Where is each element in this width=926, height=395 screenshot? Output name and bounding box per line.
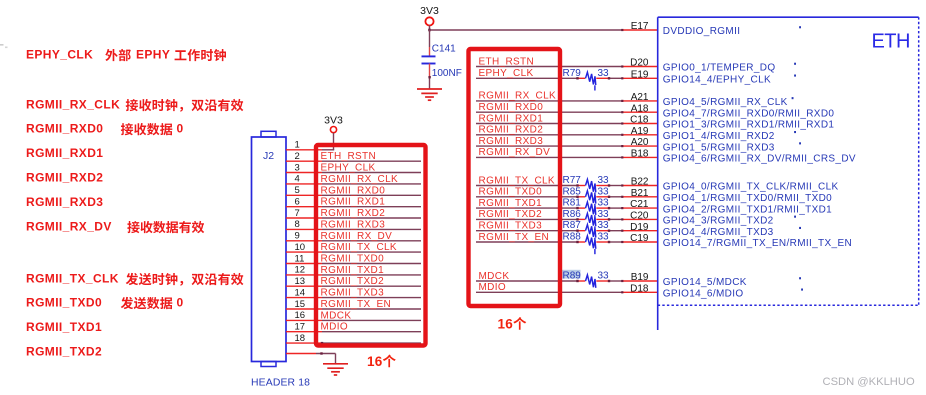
svg-text:16: 16 (295, 310, 306, 321)
pin 8 of J2 net RGMII_RXD3 (286, 219, 421, 230)
annotation RGMII_TXD0 note (26, 296, 184, 310)
svg-text:D18: D18 (630, 283, 649, 294)
svg-text:GPIO4_5/RGMII_RX_CLK: GPIO4_5/RGMII_RX_CLK (663, 97, 788, 108)
svg-text:ETH: ETH (872, 30, 910, 52)
resistor R89 33 (561, 270, 610, 288)
svg-text:EPHY_CLK: EPHY_CLK (479, 68, 534, 79)
svg-text:EPHY_CLK: EPHY_CLK (26, 48, 93, 62)
pin 15 of J2 net RGMII_TX_EN (286, 299, 421, 310)
pin 5 of J2 net RGMII_RXD0 (286, 185, 421, 196)
svg-text:RGMII_RX_CLK: RGMII_RX_CLK (479, 91, 557, 102)
svg-text:33: 33 (598, 198, 610, 209)
svg-text:7: 7 (295, 208, 300, 219)
wire 3V3 to capacitor (429, 30, 431, 56)
svg-text:GPIO4_1/RGMII_TXD0/RMII_TXD0: GPIO4_1/RGMII_TXD0/RMII_TXD0 (663, 193, 832, 204)
pin D20 of U-ETH (621, 58, 657, 69)
svg-text:13: 13 (295, 276, 306, 287)
svg-text:RGMII_RXD1: RGMII_RXD1 (26, 146, 103, 160)
pin label GPIO14_7 (663, 238, 852, 249)
annotation RGMII_RXD0 note (26, 122, 184, 136)
svg-text:A21: A21 (631, 92, 649, 103)
svg-text:RGMII_RXD3: RGMII_RXD3 (321, 219, 386, 230)
pin label GPIO4_2 (663, 204, 832, 215)
svg-text:3V3: 3V3 (324, 115, 343, 127)
svg-text:10: 10 (295, 242, 306, 253)
svg-text:RGMII_RXD3: RGMII_RXD3 (26, 195, 103, 209)
svg-text:DVDDIO_RGMII: DVDDIO_RGMII (663, 26, 741, 37)
svg-text:GPIO14_5/MDCK: GPIO14_5/MDCK (663, 277, 747, 288)
pin 9 of J2 net RGMII_RX_DV (286, 231, 421, 242)
svg-text:RGMII_TX_EN: RGMII_TX_EN (321, 299, 392, 310)
pin B22 of U-ETH (621, 177, 657, 188)
annotation RGMII_RX_DV note (26, 220, 204, 234)
svg-text:RGMII_TXD0: RGMII_TXD0 (26, 296, 102, 310)
resistor R86 33 (563, 209, 611, 232)
annotation RGMII_RXD3 note (26, 195, 103, 209)
pin 12 of J2 net RGMII_TXD1 (286, 265, 421, 276)
svg-text:RGMII_RXD2: RGMII_RXD2 (479, 125, 544, 136)
pin 16 of J2 net MDCK (286, 310, 421, 321)
svg-text:11: 11 (295, 253, 305, 264)
svg-text:RGMII_TX_CLK: RGMII_TX_CLK (321, 242, 397, 253)
svg-text:E19: E19 (631, 69, 649, 80)
svg-text:HEADER 18: HEADER 18 (251, 378, 310, 389)
svg-text:0: 0 (177, 296, 184, 310)
net RGMII_TX_EN (476, 232, 622, 243)
label 16 count (ETH) (498, 317, 527, 332)
ground (J2 pin18) (323, 364, 348, 375)
net RGMII_TXD2 (476, 209, 622, 220)
svg-text:1: 1 (295, 140, 300, 151)
pin label GPIO4_3 (663, 216, 774, 227)
svg-text:RGMII_RX_CLK: RGMII_RX_CLK (26, 98, 120, 112)
svg-text:RGMII_TXD2: RGMII_TXD2 (479, 209, 543, 220)
svg-text:GPIO4_2/RGMII_TXD1/RMII_TXD1: GPIO4_2/RGMII_TXD1/RMII_TXD1 (663, 204, 832, 215)
pin 4 of J2 net RGMII_RX_CLK (286, 174, 421, 185)
wire to ground (J2) (286, 352, 336, 364)
pin label GPIO1_4 (663, 131, 775, 142)
pin label GPIO4_5 (663, 97, 788, 108)
svg-text:GPIO4_7/RGMII_RXD0/RMII_RXD0: GPIO4_7/RGMII_RXD0/RMII_RXD0 (663, 108, 835, 119)
highlight box (J2 nets) (316, 145, 426, 346)
label HEADER 18 (251, 378, 310, 389)
pin C18 of U-ETH (621, 115, 657, 126)
pin label GPIO1_5 (663, 142, 775, 153)
pin label GPIO4_4 (663, 227, 774, 238)
annotation RGMII_RX_CLK note (26, 98, 243, 112)
pin label GPIO14_4 (663, 75, 771, 86)
pin A19 of U-ETH (621, 126, 657, 137)
resistor R85 33 (563, 186, 611, 209)
pin 7 of J2 net RGMII_RXD2 (286, 208, 421, 219)
pin 6 of J2 net RGMII_RXD1 (286, 197, 421, 208)
pin 18 of J2 (286, 333, 421, 344)
svg-text:RGMII_TX_CLK: RGMII_TX_CLK (479, 175, 555, 186)
net MDIO (476, 282, 622, 293)
svg-text:RGMII_RXD0: RGMII_RXD0 (26, 122, 103, 136)
svg-text:5: 5 (295, 185, 300, 196)
pin B19 of U-ETH (621, 272, 657, 283)
pin label GPIO4_1 (663, 193, 832, 204)
resistor R81 33 (563, 198, 611, 221)
svg-text:3V3: 3V3 (420, 5, 439, 17)
svg-text:B18: B18 (631, 149, 649, 160)
svg-text:6: 6 (295, 197, 300, 208)
net RGMII_TX_CLK (476, 175, 622, 186)
svg-text:33: 33 (598, 220, 610, 231)
svg-text:14: 14 (295, 287, 306, 298)
net RGMII_RXD1 (476, 113, 622, 124)
svg-text:A19: A19 (631, 126, 649, 137)
net RGMII_TXD0 (476, 187, 622, 198)
svg-text:33: 33 (598, 271, 610, 282)
svg-text:RGMII_TXD3: RGMII_TXD3 (321, 288, 385, 299)
net RGMII_RXD0 (476, 102, 622, 113)
svg-text:E17: E17 (631, 21, 649, 32)
svg-text:RGMII_TX_EN: RGMII_TX_EN (479, 232, 550, 243)
svg-text:RGMII_RXD3: RGMII_RXD3 (479, 136, 544, 147)
highlight box (ETH nets) (469, 49, 561, 306)
svg-text:RGMII_RX_DV: RGMII_RX_DV (321, 231, 393, 242)
resistor R87 33 (563, 220, 611, 243)
svg-text:GPIO1_4/RGMII_RXD2: GPIO1_4/RGMII_RXD2 (663, 131, 775, 142)
pin C21 of U-ETH (621, 199, 657, 210)
svg-text:J2: J2 (263, 150, 274, 162)
resistor R77 33 (563, 175, 611, 198)
pin 1 of J2 (286, 140, 334, 151)
wire capacitor to ground (428, 64, 430, 90)
pin 13 of J2 net RGMII_TXD2 (286, 276, 421, 287)
svg-text:RGMII_RXD2: RGMII_RXD2 (321, 208, 386, 219)
pin 3 of J2 net EPHY_CLK (286, 162, 421, 173)
svg-text:RGMII_TXD0: RGMII_TXD0 (479, 187, 543, 198)
pin 17 of J2 net MDIO (286, 322, 421, 333)
svg-text:A18: A18 (631, 103, 649, 114)
svg-text:RGMII_RXD1: RGMII_RXD1 (479, 113, 544, 124)
pin A18 of U-ETH (621, 103, 657, 114)
svg-text:15: 15 (295, 299, 306, 310)
pin label GPIO1_3 (663, 120, 835, 131)
svg-text:GPIO4_3/RGMII_TXD2: GPIO4_3/RGMII_TXD2 (663, 216, 774, 227)
svg-text:RGMII_RXD0: RGMII_RXD0 (479, 102, 544, 113)
annotation RGMII_TX_CLK note (26, 272, 243, 286)
svg-text:C21: C21 (630, 199, 649, 210)
svg-text:GPIO1_3/RGMII_RXD1/RMII_RXD1: GPIO1_3/RGMII_RXD1/RMII_RXD1 (663, 120, 835, 131)
resistor R88 33 (563, 232, 611, 255)
ground (C141) (417, 89, 442, 100)
svg-text:GPIO0_1/TEMPER_DQ: GPIO0_1/TEMPER_DQ (663, 63, 776, 74)
svg-text:D19: D19 (630, 222, 649, 233)
svg-text:RGMII_TXD2: RGMII_TXD2 (26, 345, 102, 359)
svg-text:RGMII_RXD2: RGMII_RXD2 (26, 171, 103, 185)
svg-text:100NF: 100NF (432, 68, 462, 79)
pin E19 of U-ETH (621, 69, 657, 80)
svg-text:3: 3 (295, 162, 300, 173)
pin D19 of U-ETH (621, 222, 657, 233)
svg-text:RGMII_TXD1: RGMII_TXD1 (321, 265, 385, 276)
pin number marks (792, 26, 803, 290)
pin 10 of J2 net RGMII_TX_CLK (286, 242, 421, 253)
svg-text:C141: C141 (432, 44, 456, 55)
pin label GPIO14_6 (663, 289, 744, 300)
svg-text:MDCK: MDCK (479, 271, 510, 282)
annotation RGMII_RXD2 note (26, 171, 103, 185)
svg-text:RGMII_RX_CLK: RGMII_RX_CLK (321, 174, 399, 185)
pin 2 of J2 net ETH_RSTN (286, 151, 421, 162)
net DVDDIO 3V3 rail (430, 29, 623, 31)
label ETH (872, 30, 910, 52)
svg-text:GPIO14_7/RGMII_TX_EN/RMII_TX_E: GPIO14_7/RGMII_TX_EN/RMII_TX_EN (663, 238, 852, 249)
svg-text:EPHY: EPHY (136, 48, 170, 62)
junction A (428, 29, 431, 32)
svg-text:17: 17 (295, 322, 306, 333)
svg-text:16: 16 (498, 317, 514, 332)
pin B21 of U-ETH (621, 188, 657, 199)
pin 11 of J2 net RGMII_TXD0 (286, 253, 421, 264)
pin 14 of J2 net RGMII_TXD3 (286, 287, 421, 298)
svg-text:33: 33 (598, 232, 610, 243)
annotation RGMII_TXD1 note (26, 320, 102, 334)
annotation RGMII_RXD1 note (26, 146, 103, 160)
svg-text:RGMII_TXD1: RGMII_TXD1 (26, 320, 102, 334)
label 16 count (J2) (367, 354, 396, 369)
pin label GPIO4_0 (663, 182, 839, 193)
svg-text:18: 18 (295, 333, 306, 344)
power 3V3 (top) (420, 5, 439, 30)
svg-text:RGMII_TXD2: RGMII_TXD2 (321, 276, 385, 287)
pin C19 of U-ETH (621, 233, 657, 244)
svg-text:C20: C20 (630, 211, 649, 222)
svg-text:9: 9 (295, 231, 300, 242)
svg-text:RGMII_TXD0: RGMII_TXD0 (321, 254, 385, 265)
pin D18 of U-ETH (621, 283, 657, 294)
svg-text:4: 4 (295, 174, 300, 185)
svg-text:33: 33 (598, 186, 610, 197)
IC block ETH outline (658, 17, 919, 330)
svg-text:33: 33 (598, 175, 610, 186)
pin C20 of U-ETH (621, 211, 657, 222)
svg-text:A20: A20 (631, 137, 649, 148)
svg-text:33: 33 (598, 68, 610, 79)
svg-text:RGMII_RXD0: RGMII_RXD0 (321, 185, 386, 196)
svg-text:8: 8 (295, 219, 300, 230)
net MDCK (476, 271, 622, 282)
pin E17 of U-ETH (621, 21, 657, 32)
svg-text:GPIO14_4/EPHY_CLK: GPIO14_4/EPHY_CLK (663, 75, 771, 86)
svg-text:12: 12 (295, 265, 306, 276)
pin label DVDDIO_RGMII (663, 26, 741, 37)
svg-text:MDIO: MDIO (479, 282, 507, 293)
svg-text:GPIO4_6/RGMII_RX_DV/RMII_CRS_D: GPIO4_6/RGMII_RX_DV/RMII_CRS_DV (663, 154, 856, 165)
svg-text:GPIO4_4/RGMII_TXD3: GPIO4_4/RGMII_TXD3 (663, 227, 774, 238)
svg-text:D20: D20 (630, 58, 649, 69)
annotation RGMII_TXD2 note (26, 345, 102, 359)
pin label GPIO4_6 (663, 154, 856, 165)
net RGMII_RXD3 (476, 136, 622, 147)
svg-text:16: 16 (367, 354, 383, 369)
svg-text:RGMII_TX_CLK: RGMII_TX_CLK (26, 272, 119, 286)
net EPHY_CLK (476, 68, 622, 79)
svg-text:2: 2 (295, 151, 300, 162)
net RGMII_TXD1 (476, 198, 622, 209)
resistor R79 33 (563, 68, 611, 91)
net RGMII_RX_CLK (476, 91, 622, 102)
pin label GPIO14_5 (663, 277, 747, 288)
decor (0, 44, 8, 48)
svg-text:RGMII_TXD3: RGMII_TXD3 (479, 221, 543, 232)
svg-text:MDIO: MDIO (321, 322, 349, 333)
svg-text:B21: B21 (631, 188, 649, 199)
capacitor C141 (422, 44, 462, 80)
pin A21 of U-ETH (621, 92, 657, 103)
net RGMII_RXD2 (476, 125, 622, 136)
svg-text:EPHY_CLK: EPHY_CLK (321, 163, 376, 174)
svg-text:ETH_RSTN: ETH_RSTN (321, 151, 377, 162)
connector J2 body (252, 131, 287, 366)
svg-text:RGMII_RXD1: RGMII_RXD1 (321, 197, 386, 208)
watermark (823, 376, 915, 388)
pin A20 of U-ETH (621, 137, 657, 148)
svg-text:CSDN @KKLHUO: CSDN @KKLHUO (823, 376, 915, 388)
svg-text:RGMII_RX_DV: RGMII_RX_DV (26, 220, 112, 234)
svg-text:RGMII_RX_DV: RGMII_RX_DV (479, 147, 551, 158)
svg-text:GPIO1_5/RGMII_RXD3: GPIO1_5/RGMII_RXD3 (663, 142, 775, 153)
pin label GPIO0_1 (663, 63, 776, 74)
annotation EPHY_CLK note (26, 48, 226, 62)
pin B18 of U-ETH (621, 149, 657, 160)
net ETH_RSTN (476, 56, 622, 67)
svg-text:C19: C19 (630, 233, 649, 244)
svg-text:0: 0 (177, 122, 184, 136)
svg-text:33: 33 (598, 209, 610, 220)
svg-text:B19: B19 (631, 272, 649, 283)
svg-text:GPIO14_6/MDIO: GPIO14_6/MDIO (663, 289, 744, 300)
svg-text:C18: C18 (630, 115, 649, 126)
svg-text:B22: B22 (631, 177, 649, 188)
net RGMII_RX_DV (476, 147, 622, 158)
net RGMII_TXD3 (476, 221, 622, 232)
svg-text:RGMII_TXD1: RGMII_TXD1 (479, 198, 543, 209)
svg-text:ETH_RSTN: ETH_RSTN (479, 56, 535, 67)
pin label GPIO4_7 (663, 108, 835, 119)
svg-text:GPIO4_0/RGMII_TX_CLK/RMII_CLK: GPIO4_0/RGMII_TX_CLK/RMII_CLK (663, 182, 839, 193)
svg-text:MDCK: MDCK (321, 310, 352, 321)
power 3V3 (J2 pin1) (324, 115, 343, 150)
